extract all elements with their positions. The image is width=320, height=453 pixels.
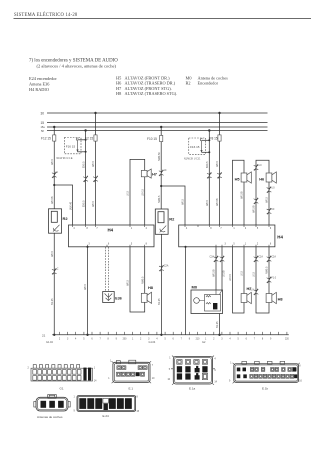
connector inline below H6	[267, 187, 272, 193]
svg-text:H5: H5	[235, 177, 241, 182]
connector inline pair top	[254, 256, 259, 262]
svg-text:R2: R2	[169, 217, 175, 222]
svg-text:NM0.5: NM0.5	[158, 195, 161, 203]
ground bus pin ticks	[60, 332, 287, 335]
node junction lighter feed	[53, 184, 55, 186]
wire down pair to speaker H8 rear	[256, 247, 269, 313]
node taps on buses	[94, 112, 96, 114]
svg-text:8X0.5: 8X0.5	[82, 200, 85, 207]
wire up-over pair to speaker H6	[256, 160, 269, 225]
svg-text:W0.5B: W0.5B	[213, 269, 216, 277]
svg-text:15: 15	[41, 121, 45, 125]
svg-text:F10 15: F10 15	[147, 137, 157, 141]
svg-text:F16 15: F16 15	[190, 145, 200, 149]
svg-text:Antena de coches: Antena de coches	[198, 75, 229, 80]
svg-text:M0: M0	[192, 285, 198, 290]
svg-text:SISTEMA ELÉCTRICO 14-28: SISTEMA ELÉCTRICO 14-28	[14, 12, 78, 18]
bus 58	[47, 130, 268, 132]
radio H4 right box	[179, 225, 275, 247]
svg-text:E.1: E.1	[129, 387, 134, 391]
wire R2 left to ground bus	[53, 233, 55, 335]
wire F12 drop from bus 15a	[53, 127, 55, 209]
connector inline below R2 right	[159, 265, 164, 271]
svg-text:30: 30	[41, 111, 45, 115]
svg-text:ALTAVOZ (TRASERO DR.): ALTAVOZ (TRASERO DR.)	[125, 81, 176, 86]
pin ticks H4 left bottom	[88, 245, 145, 247]
svg-text:F2 15: F2 15	[85, 137, 93, 141]
svg-text:W0.5: W0.5	[51, 251, 54, 257]
wire M0 ground to bus	[219, 314, 221, 335]
svg-text:W0.5: W0.5	[266, 197, 269, 203]
fuse F10 15	[160, 135, 163, 141]
svg-text:ALTAVOZ (FRONT DR.): ALTAVOZ (FRONT DR.)	[125, 75, 171, 80]
svg-text:C2A: C2A	[210, 256, 215, 259]
wire 58 drop to radio	[85, 131, 87, 226]
svg-text:H4: H4	[108, 228, 114, 233]
svg-text:E.24: E.24	[103, 414, 110, 418]
pin ticks H4 left top	[73, 225, 145, 227]
wires option box to drop 58 right	[202, 139, 210, 141]
svg-text:E36: E36	[115, 297, 121, 301]
wire H4 left ground to bus	[87, 247, 89, 335]
svg-text:E.1a: E.1a	[189, 387, 196, 391]
svg-text:1C: 1C	[164, 170, 167, 172]
svg-text:W0.5B: W0.5B	[241, 191, 244, 199]
wire up-over left pair to speaker H7 top	[130, 159, 145, 225]
wire down pair to speaker H7 rear	[233, 247, 245, 313]
svg-text:R2: R2	[63, 216, 69, 221]
cigarette lighter R2 right	[155, 209, 168, 234]
bus 15a	[47, 126, 268, 128]
svg-text:L8 0.5: L8 0.5	[229, 273, 232, 281]
connector inline mid	[267, 277, 272, 283]
connector view E1b	[229, 361, 302, 383]
svg-text:F16 15: F16 15	[66, 144, 76, 148]
svg-text:W0.5B: W0.5B	[216, 198, 219, 206]
wire F2 drop from bus 30	[95, 113, 97, 225]
dashed option box F16 left	[64, 138, 81, 154]
radio H4 left box	[69, 225, 155, 247]
svg-text:W0.5: W0.5	[206, 200, 209, 206]
svg-text:L0.5: L0.5	[127, 191, 130, 196]
svg-text:21: 21	[42, 333, 46, 337]
node junction right lighter feed	[160, 185, 162, 187]
wire R2 right to ground bus	[160, 234, 162, 334]
svg-text:N1/W 2K U C.E.: N1/W 2K U C.E.	[57, 158, 74, 160]
speaker H8 two-speaker system	[141, 292, 151, 303]
svg-text:W0.5: W0.5	[92, 201, 95, 207]
connector inline on F12 wire	[52, 172, 57, 178]
antenna lead dashed to E36	[105, 247, 107, 292]
svg-text:W0.5: W0.5	[216, 161, 219, 167]
fuse F2 15	[94, 135, 97, 141]
svg-text:W0.5: W0.5	[51, 159, 54, 165]
svg-text:L8 0.5: L8 0.5	[141, 188, 144, 196]
svg-text:N1/W 2K U C.E.: N1/W 2K U C.E.	[184, 158, 201, 160]
svg-text:E.1b: E.1b	[262, 387, 269, 391]
svg-text:ALTAVOZ (TRASERO STG).: ALTAVOZ (TRASERO STG).	[125, 91, 178, 96]
fuse F16 symbol right	[200, 139, 202, 153]
svg-text:G1.04: G1.04	[149, 341, 156, 344]
ground bus junction dots	[53, 334, 55, 336]
dashed option box F16 right	[189, 138, 206, 154]
svg-text:NM0.50: NM0.50	[158, 152, 161, 161]
svg-text:H5: H5	[116, 75, 121, 80]
wires H4 right to antenna unit M0	[215, 247, 217, 290]
connector inline upper H6 pair	[254, 164, 259, 170]
svg-text:E24 encendedor: E24 encendedor	[29, 76, 57, 81]
svg-text:L0.5: L0.5	[241, 271, 244, 276]
connector inline lower on H6 pair left	[254, 198, 259, 204]
svg-text:ALTAVOZ (FRONT STG).: ALTAVOZ (FRONT STG).	[125, 86, 172, 91]
header rule	[14, 18, 312, 20]
pin ticks H4 right top	[185, 225, 269, 227]
svg-text:W0.5B: W0.5B	[51, 196, 54, 204]
wires option box to drop 58	[78, 139, 86, 141]
svg-text:Antena E36: Antena E36	[29, 81, 50, 86]
svg-text:B1.25: B1.25	[158, 298, 161, 305]
wire up-over left pair to speaker H8 bottom	[130, 247, 145, 312]
svg-text:NM0.5: NM0.5	[141, 276, 144, 284]
fuse F8 15	[218, 135, 221, 141]
svg-text:8X0.5: 8X0.5	[206, 161, 209, 168]
svg-text:W0.5: W0.5	[127, 280, 130, 286]
wire up-over pair to speaker H5	[233, 160, 245, 225]
fuse F12 15	[53, 135, 56, 141]
wire H4 right ground to bus	[185, 247, 187, 335]
connector view E1	[108, 360, 155, 383]
connector inline	[217, 172, 222, 178]
pin ticks H4 right bottom	[216, 245, 269, 247]
bus 30	[47, 112, 268, 114]
svg-text:G1.04: G1.04	[46, 341, 53, 344]
speaker H7 two-speaker system	[141, 169, 151, 178]
connector view E24	[74, 396, 140, 413]
svg-text:C2A: C2A	[271, 256, 276, 259]
svg-text:W0.5: W0.5	[182, 199, 185, 205]
svg-text:B1.25: B1.25	[216, 321, 219, 328]
svg-text:L0.5: L0.5	[253, 272, 256, 277]
svg-text:H4 RADIO: H4 RADIO	[29, 87, 49, 92]
connector inline	[93, 176, 98, 182]
svg-text:G1: G1	[60, 387, 64, 391]
connector inline below R2 left	[52, 268, 57, 274]
svg-text:H7: H7	[116, 86, 122, 91]
ground bus pin numbers	[59, 339, 290, 341]
wire branch to radio pin	[54, 185, 72, 225]
svg-text:F12 15: F12 15	[41, 137, 51, 141]
wire F10 drop from bus 15a	[160, 127, 162, 209]
svg-text:F1.0: F1.0	[271, 278, 276, 280]
svg-text:(A)0.40: (A)0.40	[69, 201, 72, 210]
svg-text:H8: H8	[116, 91, 121, 96]
connector view G1	[28, 365, 98, 383]
speaker H5 four-speaker system	[241, 172, 251, 183]
svg-text:W0.5B: W0.5B	[253, 205, 256, 213]
svg-text:M0: M0	[186, 75, 192, 80]
connector inline	[207, 172, 212, 178]
svg-text:15a: 15a	[41, 126, 46, 129]
fuse F16 symbol left	[76, 138, 78, 152]
wire 58 drop to radio right	[208, 131, 210, 226]
speaker H6 four-speaker system	[266, 172, 276, 183]
svg-text:NM0.5: NM0.5	[266, 266, 269, 274]
svg-text:H8: H8	[148, 285, 154, 290]
speaker H8 four-speaker system	[266, 292, 276, 303]
svg-text:F1.0: F1.0	[249, 290, 254, 292]
connector view antena	[34, 394, 70, 411]
connector inline beside H7	[159, 170, 164, 176]
connector view E1a	[168, 356, 218, 385]
svg-text:H4: H4	[277, 235, 283, 240]
svg-text:C2A: C2A	[258, 256, 263, 259]
svg-text:8X0.5: 8X0.5	[82, 161, 85, 168]
wire F8 drop from bus 30	[219, 113, 221, 225]
svg-text:B1.25: B1.25	[51, 298, 54, 305]
svg-text:H6: H6	[116, 81, 122, 86]
connector inline	[83, 176, 88, 182]
svg-text:R2: R2	[186, 81, 191, 86]
svg-text:H6: H6	[259, 177, 265, 182]
speaker H7 four-speaker system	[241, 292, 251, 303]
svg-text:H7: H7	[152, 171, 157, 176]
svg-text:F8 15: F8 15	[210, 137, 218, 141]
wire branch to radio right pin	[161, 186, 185, 225]
svg-text:W0.5: W0.5	[84, 284, 87, 290]
svg-text:W0.5: W0.5	[92, 161, 95, 167]
svg-text:Antenas de coches: Antenas de coches	[37, 415, 63, 419]
bus 15	[47, 122, 268, 124]
svg-text:C2A: C2A	[164, 264, 169, 267]
svg-text:Encendedor: Encendedor	[198, 81, 219, 86]
antenna E36 box	[103, 292, 115, 303]
svg-text:L0.5B: L0.5B	[223, 270, 226, 277]
svg-text:H8: H8	[278, 297, 284, 302]
cigarette lighter R2 left	[49, 209, 62, 233]
ground bus bottom	[52, 334, 289, 336]
